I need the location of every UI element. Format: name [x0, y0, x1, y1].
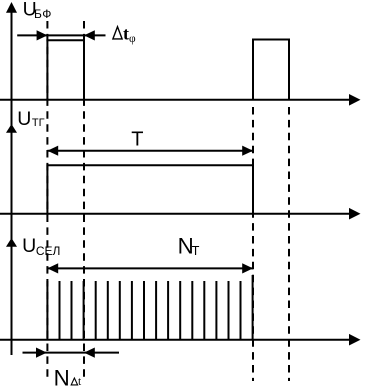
horizontal axis 2 arrowhead	[349, 208, 361, 220]
vertical axis arrowhead 2	[6, 124, 17, 133]
U_SEL comb pulses (18)	[47, 275, 252, 340]
dt_f left arrowhead (points right)	[37, 30, 48, 40]
N_T dimension line	[47, 267, 253, 269]
N_T right arrowhead (points right)	[242, 263, 253, 273]
vertical axis shaft	[11, 8, 13, 355]
U_BF pulse 1	[47, 40, 84, 100]
vertical axis arrowhead 3	[6, 238, 17, 247]
svg-text:T: T	[131, 129, 143, 151]
horizontal axis 1 (t)	[0, 99, 351, 101]
T right arrowhead (points right)	[242, 146, 253, 156]
dt_f dimension line	[17, 34, 105, 36]
svg-text:СЕЛ: СЕЛ	[36, 244, 61, 258]
dashed extension line at t2 rise x=253	[252, 107, 254, 381]
N_dt left arrowhead (points right)	[36, 348, 47, 358]
U_BF pulse 2	[253, 40, 289, 100]
U_TG pulse	[47, 165, 253, 213]
horizontal axis 2 (t)	[0, 213, 351, 215]
svg-text:U: U	[22, 235, 36, 257]
svg-text:ТГ: ТГ	[32, 117, 45, 129]
horizontal axis 3 arrowhead	[349, 334, 361, 346]
svg-text:N: N	[54, 365, 70, 389]
N_dt dimension line	[23, 352, 120, 354]
label dt_f : Delta drawn as outline triangle	[113, 27, 122, 39]
svg-text:φ: φ	[129, 33, 136, 45]
svg-text:БФ: БФ	[34, 7, 52, 21]
dt_f right arrowhead (points left)	[84, 30, 95, 40]
horizontal axis 3 (t)	[0, 339, 351, 341]
vertical axis arrowhead 1	[6, 2, 17, 13]
T left arrowhead (points left)	[47, 146, 58, 156]
horizontal axis 1 arrowhead	[349, 94, 361, 106]
dashed extension line at t1 rise x=47.4	[46, 21, 48, 378]
T dimension line	[47, 150, 253, 152]
dashed extension line at t2 fall x=289	[288, 107, 290, 381]
svg-text:U: U	[17, 108, 31, 130]
N_T left arrowhead (points left)	[47, 263, 58, 273]
svg-text:Т: Т	[192, 244, 200, 258]
N_dt right arrowhead (points left)	[84, 348, 95, 358]
dashed extension line at t1 fall x=84	[83, 21, 85, 377]
